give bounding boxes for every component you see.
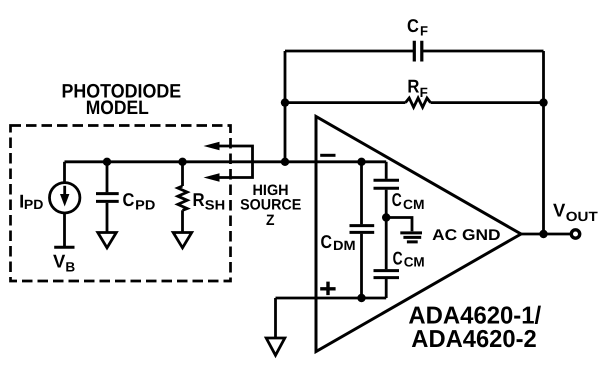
svg-text:C: C (123, 189, 135, 210)
svg-text:AC GND: AC GND (432, 227, 501, 244)
svg-text:PD: PD (24, 197, 44, 212)
svg-text:B: B (65, 260, 75, 275)
svg-text:C: C (321, 231, 333, 252)
svg-text:CM: CM (403, 197, 425, 212)
svg-text:SOURCE: SOURCE (240, 197, 301, 214)
svg-text:C: C (392, 189, 402, 210)
svg-text:PD: PD (135, 198, 155, 213)
svg-text:OUT: OUT (566, 209, 599, 224)
svg-text:CM: CM (404, 255, 425, 270)
svg-text:F: F (420, 23, 428, 38)
svg-text:F: F (420, 85, 428, 100)
svg-text:C: C (407, 15, 419, 36)
svg-text:MODEL: MODEL (86, 97, 149, 119)
svg-text:ADA4620-2: ADA4620-2 (411, 326, 536, 353)
svg-text:SH: SH (205, 198, 225, 213)
svg-text:C: C (393, 248, 403, 269)
svg-text:V: V (553, 200, 566, 221)
svg-text:Z: Z (266, 212, 275, 229)
svg-text:R: R (193, 189, 205, 210)
svg-text:V: V (53, 251, 66, 272)
svg-text:R: R (407, 76, 419, 97)
svg-text:DM: DM (333, 238, 356, 253)
